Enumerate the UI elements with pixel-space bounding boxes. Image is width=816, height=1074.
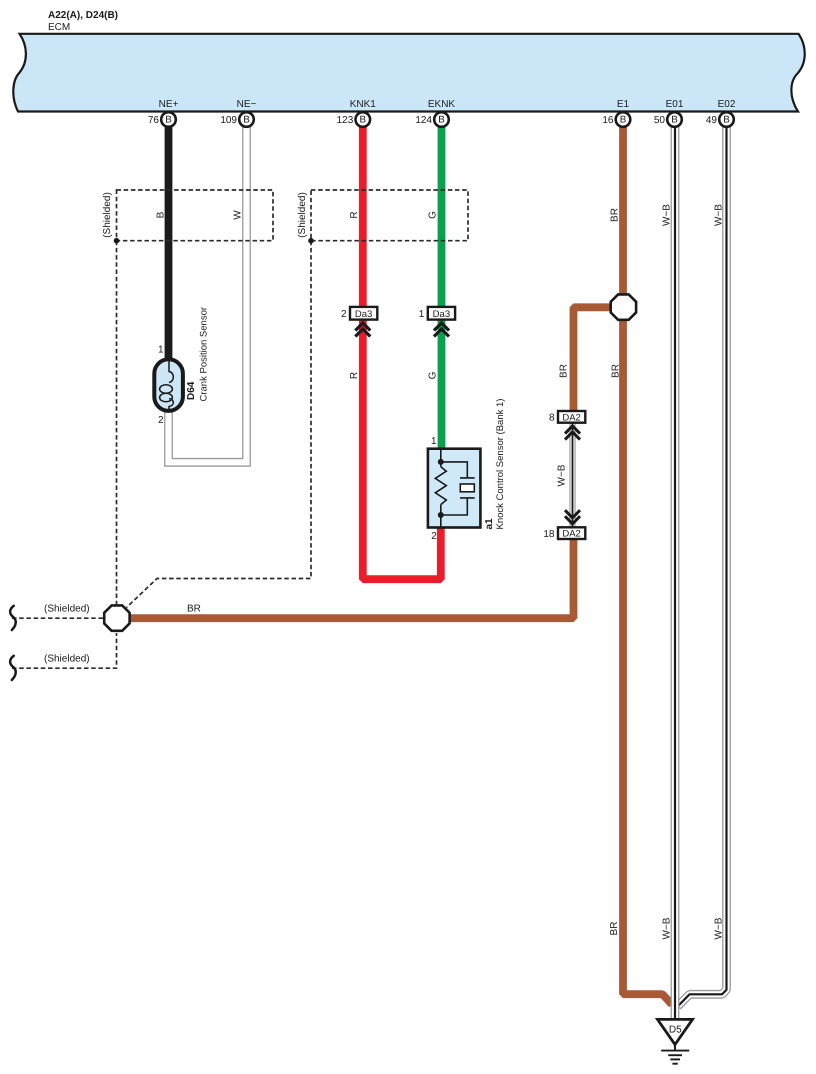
wire NE- white W loop [169, 124, 247, 462]
svg-text:R: R [349, 372, 360, 379]
svg-text:8: 8 [549, 413, 555, 424]
wire E1 brown BR upper [619, 124, 627, 294]
svg-text:G: G [428, 211, 439, 219]
svg-text:1: 1 [419, 309, 425, 320]
svg-text:2: 2 [341, 309, 347, 320]
piezo element rectangle [460, 484, 474, 492]
connector Da3 pin 1 [419, 307, 455, 337]
svg-text:BR: BR [610, 208, 621, 222]
wire BR branch octagon to 8 DA2 [574, 307, 611, 412]
svg-text:E1: E1 [617, 99, 630, 110]
shield drain dashed line knock to octagon [127, 241, 312, 608]
shield dashed line left (Shielded) to octagon [12, 617, 104, 619]
svg-text:D5: D5 [669, 1024, 682, 1035]
svg-text:16: 16 [602, 115, 614, 126]
capacitor branch top [441, 462, 475, 478]
svg-text:B: B [156, 211, 167, 218]
shield dashed box crank sensor [117, 190, 274, 241]
svg-text:76: 76 [148, 115, 160, 126]
svg-text:123: 123 [337, 115, 354, 126]
wire BR 18 DA2 down to shield octagon [129, 539, 574, 619]
ground symbol D5 [658, 1019, 693, 1063]
svg-text:2: 2 [431, 531, 437, 542]
svg-text:2: 2 [158, 415, 164, 426]
svg-text:B: B [438, 115, 445, 126]
svg-text:B: B [723, 115, 730, 126]
svg-text:B: B [620, 115, 627, 126]
junction dot knock bottom [438, 512, 444, 518]
knock control sensor a1 body [428, 449, 481, 528]
junction dot knock shield [308, 238, 314, 244]
svg-text:B: B [671, 115, 678, 126]
svg-text:KNK1: KNK1 [350, 99, 377, 110]
svg-text:109: 109 [220, 115, 237, 126]
svg-text:Knock Control Sensor (Bank 1): Knock Control Sensor (Bank 1) [495, 399, 506, 530]
svg-text:BR: BR [609, 922, 620, 936]
connector DA2 pin 18 [543, 510, 585, 540]
svg-text:18: 18 [543, 529, 555, 540]
pin circle E01 50 [654, 112, 682, 127]
svg-text:Crank Position Sensor: Crank Position Sensor [199, 307, 210, 402]
svg-text:W−B: W−B [714, 917, 725, 939]
svg-text:E01: E01 [666, 99, 684, 110]
crank position sensor D64 body [154, 359, 183, 411]
svg-text:DA2: DA2 [562, 529, 580, 540]
wire KNK1 red R [363, 124, 441, 579]
svg-text:B: B [165, 115, 172, 126]
squiggle torn wire 2 [10, 656, 16, 680]
octagon junction E1 [611, 294, 636, 319]
svg-text:G: G [428, 371, 439, 379]
shield dashed box knock sensor [311, 190, 468, 241]
svg-text:49: 49 [706, 115, 718, 126]
svg-text:ECM: ECM [48, 22, 70, 33]
junction dot knock top [438, 459, 444, 465]
ECM block band [13, 34, 804, 112]
svg-text:W: W [233, 210, 244, 220]
svg-text:(Shielded): (Shielded) [102, 192, 113, 238]
pin circle NE+ 76 [148, 112, 176, 127]
connector DA2 pin 8 [549, 411, 585, 440]
internal wire knock sensor [440, 449, 442, 528]
svg-text:W−B: W−B [714, 204, 725, 226]
wire W-B thin between DA2 connectors [569, 422, 575, 529]
coil symbol inside D64 [169, 361, 173, 383]
wire E01 W-B [671, 124, 680, 1019]
pin circle E02 49 [706, 112, 734, 127]
svg-text:NE−: NE− [237, 99, 257, 110]
svg-text:1: 1 [158, 345, 164, 356]
svg-text:E02: E02 [718, 99, 736, 110]
wire E1 brown BR lower to ground [623, 321, 672, 1005]
svg-text:EKNK: EKNK [428, 99, 456, 110]
wire NE+ black B [165, 124, 173, 361]
squiggle torn wire 1 [10, 606, 16, 630]
svg-text:A22(A), D24(B): A22(A), D24(B) [48, 10, 118, 21]
svg-text:W−B: W−B [557, 464, 568, 486]
pin circle EKNK 124 [415, 112, 448, 127]
octagon shield junction left [104, 605, 129, 630]
pin circle E1 16 [602, 112, 630, 127]
svg-text:124: 124 [415, 115, 432, 126]
svg-text:BR: BR [187, 604, 201, 615]
svg-text:(Shielded): (Shielded) [297, 192, 308, 238]
svg-text:Da3: Da3 [433, 309, 450, 320]
svg-text:BR: BR [611, 364, 622, 378]
svg-text:W−B: W−B [662, 917, 673, 939]
junction dot crank shield [114, 238, 120, 244]
shield drain dashed line crank to octagon [116, 241, 118, 604]
svg-text:1: 1 [431, 436, 437, 447]
svg-text:Da3: Da3 [355, 309, 372, 320]
svg-text:B: B [243, 115, 250, 126]
pin circle NE- 109 [220, 112, 253, 127]
wire E02 W-B [678, 124, 727, 1007]
svg-text:R: R [349, 211, 360, 218]
connector Da3 pin 2 [341, 307, 377, 337]
svg-text:a1: a1 [484, 518, 495, 530]
svg-text:DA2: DA2 [562, 412, 580, 423]
svg-text:(Shielded): (Shielded) [44, 654, 90, 665]
capacitor branch bottom [441, 498, 475, 515]
svg-text:W−B: W−B [662, 204, 673, 226]
svg-text:(Shielded): (Shielded) [44, 604, 90, 615]
svg-text:D64: D64 [186, 381, 197, 400]
svg-text:B: B [360, 115, 367, 126]
wire EKNK green G [438, 124, 446, 451]
pin circle KNK1 123 [337, 112, 370, 127]
svg-text:BR: BR [559, 364, 570, 378]
resistor zigzag [435, 467, 446, 505]
shield dashed line bottom (Shielded) to octagon [12, 633, 117, 668]
svg-text:50: 50 [654, 115, 666, 126]
svg-text:NE+: NE+ [159, 99, 179, 110]
